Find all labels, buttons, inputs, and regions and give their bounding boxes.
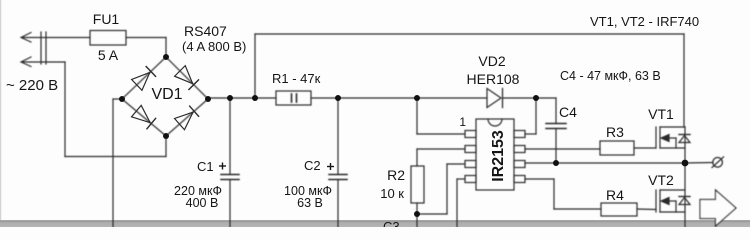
- svg-text:FU1: FU1: [93, 11, 120, 27]
- svg-text:RS407: RS407: [184, 23, 227, 39]
- svg-text:VT1: VT1: [648, 106, 674, 122]
- svg-text:5 A: 5 A: [98, 47, 119, 63]
- svg-text:10 к: 10 к: [380, 186, 404, 201]
- svg-text:VT1, VT2 - IRF740: VT1, VT2 - IRF740: [590, 14, 699, 29]
- svg-text:C3: C3: [383, 219, 400, 227]
- svg-text:400 В: 400 В: [186, 196, 219, 210]
- svg-text:R3: R3: [606, 124, 624, 140]
- svg-text:C2: C2: [304, 158, 321, 173]
- svg-text:VT2: VT2: [648, 172, 674, 188]
- svg-text:IR2153: IR2153: [490, 130, 507, 182]
- svg-text:(4 A 800 B): (4 A 800 B): [182, 39, 246, 54]
- svg-text:VD1: VD1: [151, 86, 182, 103]
- svg-text:1: 1: [459, 115, 466, 129]
- svg-text:63 В: 63 В: [297, 196, 323, 210]
- svg-text:R1 - 47к: R1 - 47к: [272, 71, 321, 86]
- svg-text:C1: C1: [197, 159, 214, 174]
- svg-text:R4: R4: [606, 187, 624, 203]
- svg-text:R2: R2: [387, 167, 405, 183]
- svg-text:C4 - 47 мкФ, 63 В: C4 - 47 мкФ, 63 В: [560, 69, 661, 83]
- svg-text:HER108: HER108: [467, 71, 520, 87]
- svg-text:~ 220 В: ~ 220 В: [6, 77, 58, 94]
- svg-text:C4: C4: [559, 104, 577, 120]
- svg-text:VD2: VD2: [478, 53, 505, 69]
